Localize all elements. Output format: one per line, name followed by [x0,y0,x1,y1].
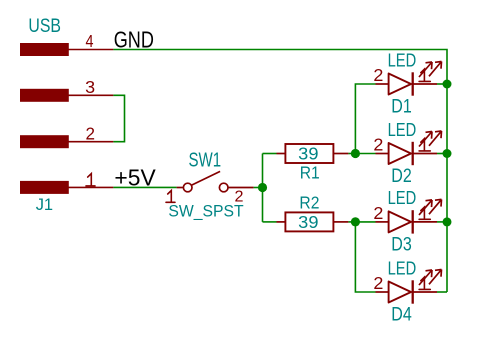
LED D1 [373,49,451,117]
junction D3 cathode [443,217,452,226]
switch SW1 right contact circle [219,183,228,192]
svg-text:4: 4 [86,31,94,51]
svg-text:LED: LED [388,187,417,208]
LED D3 emission arrow a [419,200,432,215]
wire to R1 [263,153,277,155]
svg-text:SW1: SW1 [189,149,222,171]
LED D4 pin 2 line [376,291,389,293]
LED D4 pin number 1 [419,277,430,289]
wire D3 cathode to bus [437,221,447,223]
svg-text:3: 3 [85,77,95,97]
LED D2 [373,119,451,187]
connector J1 pin 2 pad [21,136,69,148]
LED D2 pin number 1 [419,139,430,151]
junction D1 cathode [443,80,452,89]
junction R2 node [351,217,360,226]
LED D2 emission arrow b [429,131,442,146]
switch SW1 left contact circle [183,183,192,192]
svg-text:LED: LED [388,49,417,70]
resistor R2 body [285,212,333,231]
connector J1 pin 4 line [68,49,113,51]
connector J1 pin 1 pad [21,181,69,193]
LED D2 cathode bar [412,142,414,165]
LED D1 cathode bar [412,72,414,95]
svg-text:2: 2 [373,203,383,223]
LED D2 emission arrow a [419,132,432,147]
wire pin3 to pin2 [113,95,124,141]
svg-text:R2: R2 [299,193,319,213]
LED D4 emission arrow b [429,270,442,285]
junction switch output node [258,183,267,192]
switch SW1 pin 2 line [228,187,254,189]
svg-text:J1: J1 [36,195,53,214]
connector J1 pin 4 pad [21,44,69,56]
svg-text:D4: D4 [391,305,412,326]
svg-text:D3: D3 [391,234,412,255]
wire D4 cathode to bus [437,291,447,293]
switch SW1 pin number 1 [166,191,175,203]
resistor R2 pin 1 line [277,221,286,223]
LED D1 emission arrow a [419,62,432,77]
LED D2 triangle [389,143,411,164]
svg-text:SW_SPST: SW_SPST [168,203,243,221]
LED D4 emission arrow a [419,270,432,285]
wire vertical bus to R1 and R2 [262,154,264,222]
LED D1 pin 1 line [413,83,437,85]
wire R1 node to D2 anode [355,153,375,155]
wire left bus R2 node down to D4 [355,222,375,292]
LED D3 pin 2 line [376,221,389,223]
svg-text:LED: LED [388,257,417,278]
wire switch output [254,187,263,189]
LED D2 pin 1 line [413,153,437,155]
resistor R1 pin 1 line [277,153,286,155]
connector J1 pin 1 line [68,186,113,188]
connector J1 pin 3 line [68,94,113,96]
svg-text:R1: R1 [300,162,320,182]
svg-text:2: 2 [373,135,383,155]
svg-text:D2: D2 [391,166,412,187]
LED D4 [373,257,447,325]
wire left bus R1 node up to D1 [355,84,375,154]
switch SW1 lever [192,171,220,185]
svg-text:2: 2 [86,124,96,144]
wire R2 to node [348,221,355,223]
LED D3 [373,187,451,255]
LED D3 triangle [389,211,411,232]
resistor R1 body [285,144,333,163]
pin number 1 [86,174,95,186]
LED D1 triangle [389,74,411,95]
LED D1 pin 2 line [376,83,389,85]
svg-text:2: 2 [373,65,383,85]
svg-text:39: 39 [298,144,318,164]
wire to R2 [263,221,277,223]
svg-text:2: 2 [373,273,383,293]
svg-text:GND: GND [114,26,154,52]
LED D4 triangle [389,282,411,303]
LED D4 cathode bar [412,280,414,303]
LED D3 cathode bar [412,210,414,233]
switch SW1 pin 1 line [177,187,184,189]
resistor R2 pin 2 line [333,221,348,223]
wire +5V to switch [113,186,176,188]
junction D2 cathode [443,149,452,158]
wire R2 node to D3 anode [355,221,375,223]
LED D3 pin number 1 [419,207,430,219]
wire D2 cathode to bus [437,153,447,155]
svg-text:D1: D1 [391,97,412,118]
svg-text:USB: USB [28,15,61,37]
junction R1 node [351,149,360,158]
resistor R1 pin 2 line [333,153,348,155]
wire GND net [113,50,447,293]
LED D4 pin 1 line [413,291,437,293]
LED D3 pin 1 line [413,221,437,223]
connector J1 pin 3 pad [21,89,69,101]
wire D1 cathode to bus [437,83,447,85]
svg-text:LED: LED [388,119,417,140]
LED D3 emission arrow b [429,199,442,214]
svg-text:2: 2 [235,188,244,205]
connector J1 pin 2 line [68,141,113,143]
LED D1 pin number 1 [419,69,430,81]
wire R1 to node [348,153,355,155]
LED D1 emission arrow b [429,62,442,77]
LED D2 pin 2 line [376,153,389,155]
svg-text:39: 39 [298,212,318,232]
